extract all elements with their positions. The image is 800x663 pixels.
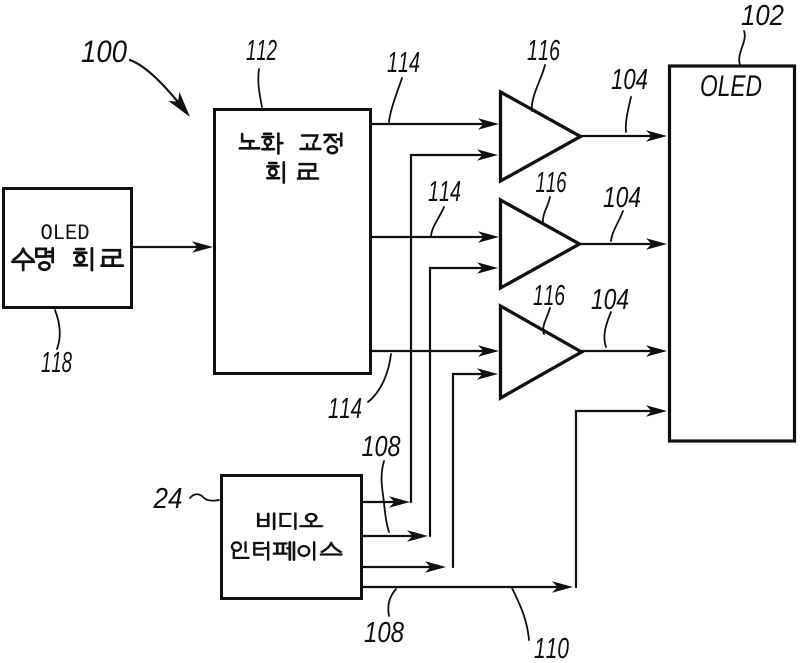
- box 112 text 노화 교정: [240, 134, 341, 154]
- label 104 middle: [604, 187, 641, 208]
- leader 114 top: [389, 78, 402, 122]
- box 112 aging correction circuit: [215, 110, 371, 374]
- label 118: [41, 352, 71, 373]
- label 102: [742, 5, 784, 26]
- leader 114 middle: [431, 207, 444, 236]
- label 104 bottom: [592, 289, 629, 310]
- leader 104 bottom: [604, 312, 611, 347]
- arrow 100: [130, 60, 196, 121]
- leader 104 top: [626, 97, 631, 132]
- leader 114 bottom: [368, 354, 391, 402]
- wire 110 riser to box102: [576, 405, 667, 587]
- wire amp2 output to box102: [579, 238, 667, 249]
- label 104 top: [612, 69, 648, 90]
- wire box118 to box112: [132, 241, 213, 252]
- wire box24 output4 bottom: [363, 581, 573, 592]
- label 100: [82, 40, 127, 62]
- leader 24: [190, 494, 219, 500]
- box 24 video interface: [222, 476, 362, 599]
- leader 116 middle: [543, 197, 550, 223]
- wire amp1 output to box102: [580, 130, 667, 141]
- leader 116 top: [532, 65, 545, 111]
- wire 112 to amp3 input1: [371, 345, 499, 356]
- box 118 text OLED: [42, 224, 89, 239]
- leader 110: [512, 588, 529, 640]
- wire box24 output2: [363, 530, 428, 541]
- label 116 bottom: [533, 285, 564, 306]
- box 112 text 회로: [267, 162, 318, 182]
- label 114 middle: [429, 181, 461, 201]
- box 24 text 인터페이스: [232, 542, 341, 559]
- wire box24 output3: [363, 561, 446, 572]
- box 102 text OLED: [701, 75, 761, 96]
- wire riser video to amp3 input2: [453, 368, 498, 567]
- box 118 OLED lifetime circuit: [4, 189, 132, 308]
- label 116 middle: [536, 172, 567, 193]
- box 118 text 수명 회로: [12, 248, 122, 270]
- box 24 text 비디오: [258, 513, 322, 529]
- leader 112: [258, 69, 262, 107]
- leader 104 middle: [611, 211, 623, 241]
- leader 118: [55, 310, 60, 349]
- wire box24 output1: [363, 496, 410, 507]
- label 114 bottom: [329, 398, 362, 418]
- leader 108 top: [382, 461, 389, 532]
- label 114 top: [388, 52, 420, 72]
- leader 102: [739, 31, 745, 65]
- leader 108 bottom: [388, 589, 396, 616]
- box 102 OLED display: [670, 66, 795, 441]
- wire riser video to amp2 input2: [430, 262, 498, 536]
- label 110: [535, 638, 569, 659]
- label 108 bottom: [365, 622, 404, 643]
- wire amp3 output to box102: [581, 345, 667, 356]
- wire 112 to amp2 input1: [371, 231, 499, 242]
- amplifier 116 top: [501, 92, 581, 181]
- wire 112 to amp1 input1: [371, 118, 499, 129]
- amplifier 116 middle: [501, 200, 580, 288]
- label 24: [153, 488, 181, 508]
- leader 116 bottom: [543, 308, 550, 334]
- label 108 top: [362, 436, 400, 457]
- amplifier 116 bottom: [501, 306, 582, 398]
- label 116 top: [528, 40, 560, 61]
- label 112: [246, 40, 276, 60]
- wire riser video to amp1 input2: [411, 149, 498, 502]
